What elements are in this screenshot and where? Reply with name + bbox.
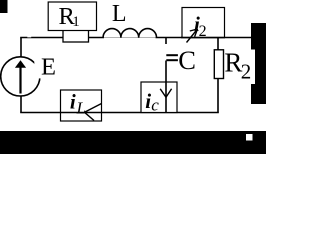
white label box C (covers upper branch wire below y44) xyxy=(165,44,213,69)
label box outline iL xyxy=(61,90,102,121)
inductor L white base (hides wire under coils) xyxy=(104,38,156,46)
capacitor C lower plate xyxy=(166,59,178,61)
wire re-draw along i2 box bottom xyxy=(181,37,225,39)
white label box L xyxy=(106,0,160,28)
svg-text:R: R xyxy=(224,48,242,78)
svg-text:L: L xyxy=(112,1,127,27)
label box outline ic xyxy=(141,82,177,113)
inductor L coils xyxy=(103,29,156,38)
source E arrow xyxy=(19,66,21,94)
svg-text:2: 2 xyxy=(199,23,207,40)
wire: capacitor branch lower xyxy=(165,61,167,113)
svg-text:2: 2 xyxy=(241,60,252,84)
wire: top horizontal xyxy=(20,37,251,39)
black block right side xyxy=(251,23,266,104)
wire: R2 branch upper xyxy=(217,38,219,51)
white label box E (covers circle outline top-right) xyxy=(34,55,60,78)
label box outline R1 xyxy=(48,2,96,31)
current arrow iL (on bottom wire, pointing left) xyxy=(85,104,102,113)
wire re-draw through iL box xyxy=(61,112,102,114)
wire re-draw through ic box xyxy=(165,82,167,112)
black strip bottom xyxy=(0,131,266,154)
svg-text:E: E xyxy=(41,54,56,81)
wire: bottom-left vertical from source xyxy=(20,95,22,113)
small white dot over top wire xyxy=(27,34,31,37)
white label box R2 over black block xyxy=(218,50,255,85)
svg-text:c: c xyxy=(151,96,159,115)
wire: left vertical from source top xyxy=(20,38,22,59)
svg-text:C: C xyxy=(178,45,196,75)
svg-text:L: L xyxy=(76,98,86,117)
source E circle xyxy=(1,57,40,96)
svg-text:1: 1 xyxy=(72,14,80,30)
resistor R2 body xyxy=(214,50,223,79)
resistor R1 body xyxy=(63,30,89,42)
current arrow ic (arrowhead down on cap branch) xyxy=(160,89,171,98)
current arrow i2 (diagonal across top wire) xyxy=(187,29,198,43)
wire: bottom horizontal xyxy=(20,112,219,114)
capacitor C upper plate xyxy=(166,54,178,56)
wire: capacitor branch upper xyxy=(165,38,167,55)
label box outline i2 xyxy=(182,8,225,38)
svg-text:i: i xyxy=(70,89,76,113)
white notch in bottom strip xyxy=(246,134,253,141)
wire: R2 branch lower xyxy=(217,78,219,113)
black corner block top-left xyxy=(0,0,8,13)
